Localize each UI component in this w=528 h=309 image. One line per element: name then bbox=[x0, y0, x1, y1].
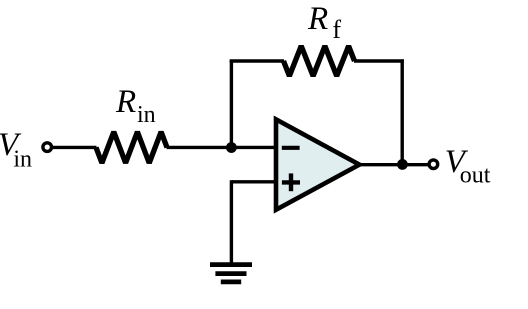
ground bbox=[210, 265, 252, 282]
resistor R_f bbox=[284, 46, 355, 76]
label V_out bbox=[445, 144, 491, 189]
wire non-inverting input bbox=[231, 180, 276, 183]
terminal V_out bbox=[429, 160, 438, 169]
wire feedback top-right horizontal bbox=[354, 59, 404, 62]
svg-text:R: R bbox=[307, 1, 328, 37]
op-amp U1 bbox=[276, 119, 359, 209]
label R_in bbox=[115, 84, 156, 128]
terminal V_in bbox=[43, 143, 52, 152]
label V_in bbox=[0, 127, 32, 173]
label R_f bbox=[307, 1, 341, 44]
node B (output junction) bbox=[397, 159, 408, 170]
wire feedback top-left horizontal bbox=[230, 59, 284, 62]
resistor R_in bbox=[96, 132, 167, 163]
svg-text:in: in bbox=[137, 102, 156, 128]
wire output bbox=[358, 163, 430, 166]
wire feedback left vertical bbox=[230, 61, 233, 147]
wire feedback right vertical bbox=[401, 59, 404, 164]
wire input horizontal bbox=[52, 146, 97, 149]
svg-text:out: out bbox=[460, 163, 491, 189]
node A (inverting input junction) bbox=[226, 142, 237, 153]
wire ground vertical bbox=[230, 180, 233, 263]
svg-text:R: R bbox=[115, 84, 136, 120]
wire resistor to op-amp bbox=[167, 146, 278, 149]
svg-text:f: f bbox=[332, 15, 341, 44]
svg-text:in: in bbox=[13, 147, 32, 173]
